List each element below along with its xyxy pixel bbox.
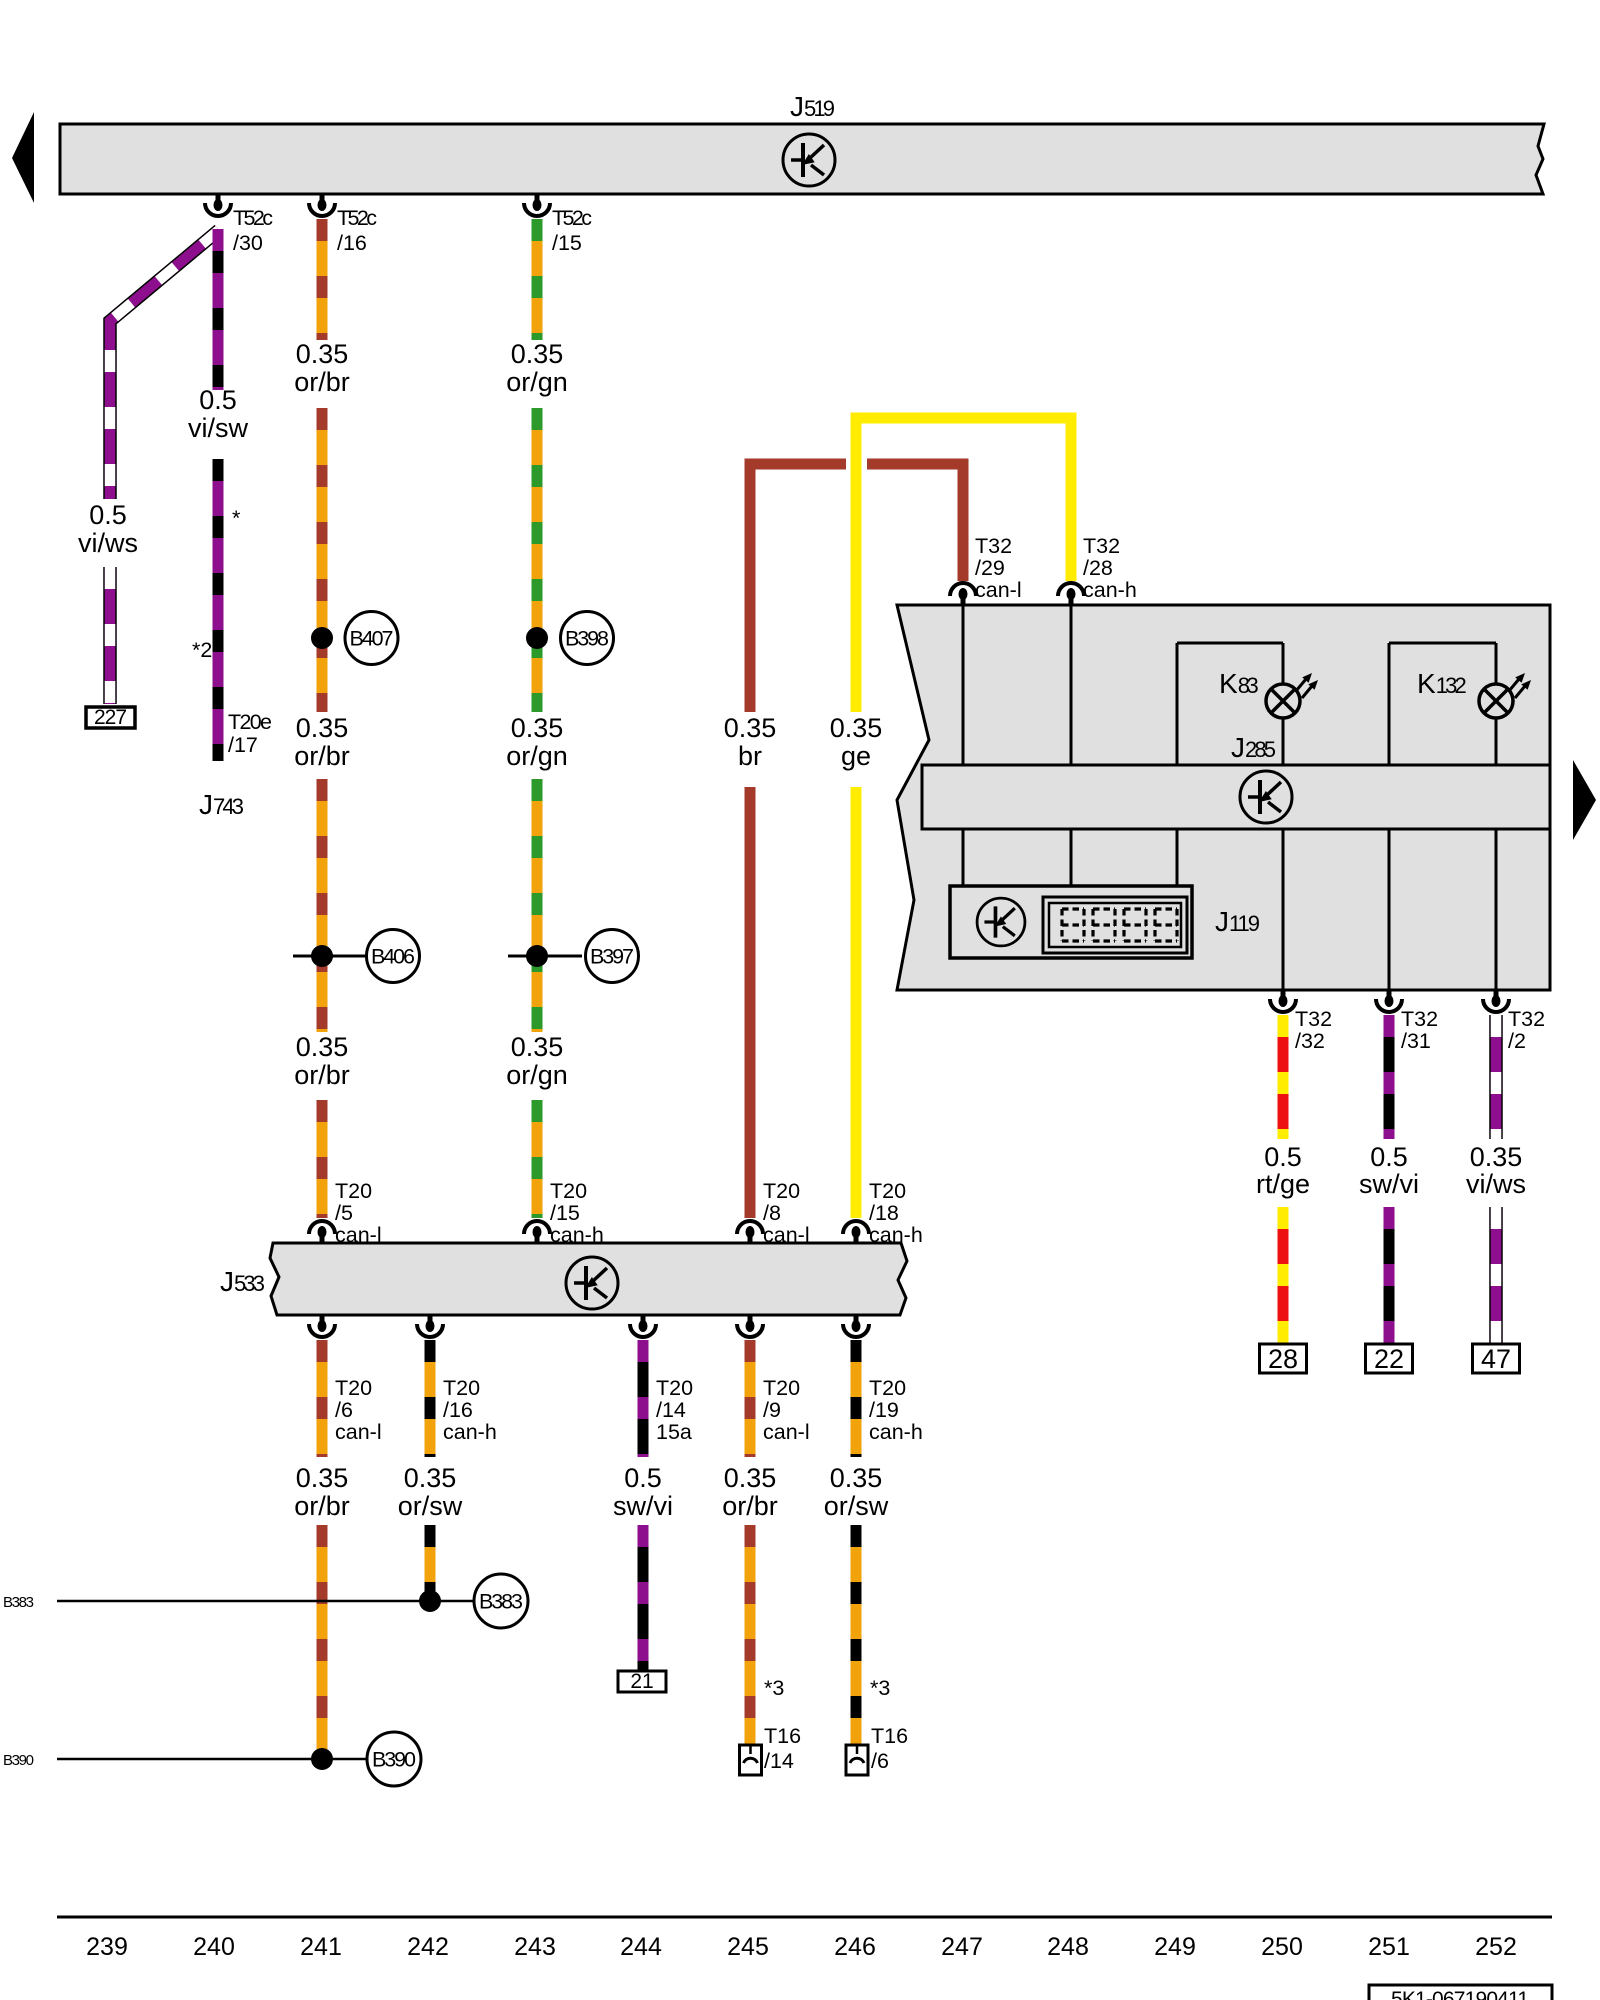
svg-text:can-l: can-l xyxy=(975,578,1022,602)
bottom scale line xyxy=(57,1916,1552,1919)
svg-text:T20: T20 xyxy=(335,1179,372,1203)
wire inside box from T32/29 (col 247) xyxy=(962,605,965,886)
continuation box 28 xyxy=(1260,1344,1307,1374)
connector T16/14 symbol xyxy=(740,1745,762,1775)
connector T20/15 on J533 top xyxy=(524,1221,550,1243)
instrument cluster control unit box (J285 area) xyxy=(897,605,1550,990)
svg-text:251: 251 xyxy=(1368,1933,1410,1961)
svg-text:0.35: 0.35 xyxy=(296,713,349,743)
label 0.5 rt/ge (col 250) xyxy=(1256,1142,1310,1199)
svg-text:T32: T32 xyxy=(1295,1007,1332,1031)
label T20 /16 can-h xyxy=(443,1376,497,1444)
label T16 /6 xyxy=(871,1724,908,1773)
connector T32/32 on box bottom xyxy=(1270,990,1296,1012)
wire vi/ws seg 2 (col 252) xyxy=(1489,1207,1503,1344)
svg-text:can-h: can-h xyxy=(869,1420,923,1444)
svg-text:T20: T20 xyxy=(550,1179,587,1203)
ground box 21 xyxy=(618,1670,666,1693)
wire sw/vi seg E below J533 (col 244) xyxy=(638,1340,649,1457)
svg-text:/15: /15 xyxy=(550,1201,580,1225)
svg-text:0.5: 0.5 xyxy=(199,385,237,415)
J119 7-segment digit 4 xyxy=(1155,909,1177,941)
J119 7-segment digit 2 xyxy=(1093,909,1115,941)
svg-text:T32: T32 xyxy=(1401,1007,1438,1031)
svg-text:/2: /2 xyxy=(1508,1029,1526,1053)
wire K132 loop left leg to T32/31 xyxy=(1388,643,1391,990)
junction B407 xyxy=(311,612,398,665)
svg-text:0.35: 0.35 xyxy=(724,713,777,743)
junction B383 xyxy=(419,1574,528,1628)
wire vi/sw upper segment (col 240) xyxy=(213,229,224,390)
svg-text:0.35: 0.35 xyxy=(724,1463,777,1493)
connector T32/29 on box top xyxy=(950,583,976,605)
svg-text:can-l: can-l xyxy=(763,1420,810,1444)
svg-text:239: 239 xyxy=(86,1933,128,1961)
connector T20/9 on J533 bottom xyxy=(737,1315,763,1337)
svg-text:B407: B407 xyxy=(350,627,394,651)
label 0.35 or/br row1 (col 241) xyxy=(294,339,350,397)
label 0.5 sw/vi row4 (col 244) xyxy=(613,1463,673,1521)
svg-text:sw/vi: sw/vi xyxy=(613,1491,673,1521)
wire or/br seg D (col 241) xyxy=(317,1100,328,1218)
svg-text:250: 250 xyxy=(1261,1933,1303,1961)
J119 K symbol xyxy=(977,898,1025,946)
svg-text:*2: *2 xyxy=(192,638,212,662)
svg-text:T20: T20 xyxy=(763,1376,800,1400)
svg-text:vi/sw: vi/sw xyxy=(188,413,249,443)
svg-text:/6: /6 xyxy=(335,1398,353,1422)
svg-text:0.35: 0.35 xyxy=(296,1032,349,1062)
svg-text:T16: T16 xyxy=(764,1724,801,1748)
label 0.35 or/sw row4 (col 246) xyxy=(824,1463,889,1521)
svg-text:5K1-067190411: 5K1-067190411 xyxy=(1391,1988,1529,2000)
connector T52c/15 on J519 xyxy=(524,194,550,216)
connector T20/14 on J533 bottom xyxy=(630,1315,656,1337)
svg-text:J285: J285 xyxy=(1231,732,1276,763)
label 0.5 vi/sw (col 240) xyxy=(188,385,249,443)
label 0.35 or/br row4 (col 241) xyxy=(294,1463,350,1521)
wire or/gn seg C (col 243) xyxy=(532,779,543,1032)
svg-text:T52c: T52c xyxy=(552,206,592,230)
wire or/br seg B (col 241) xyxy=(317,408,328,712)
wire sw/vi seg 1 (col 251) xyxy=(1384,1015,1395,1139)
J285 K symbol xyxy=(1240,771,1292,823)
svg-text:B390: B390 xyxy=(3,1752,34,1769)
node B390 wire line xyxy=(57,1758,367,1761)
label 0.35 or/gn row1 (col 243) xyxy=(506,339,568,397)
svg-text:/29: /29 xyxy=(975,556,1005,580)
wire K132 lamp leg upper xyxy=(1495,643,1498,684)
label T20 /5 can-l xyxy=(335,1179,382,1247)
label T20 /18 can-h xyxy=(869,1179,923,1247)
wire vi/ws seg 1 (col 252) xyxy=(1489,1015,1503,1139)
inner bus bar J285 xyxy=(922,765,1550,829)
svg-text:252: 252 xyxy=(1475,1933,1517,1961)
svg-text:T16: T16 xyxy=(871,1724,908,1748)
svg-text:K83: K83 xyxy=(1219,668,1259,699)
J119 display frame xyxy=(1043,897,1187,953)
label T20e /17 xyxy=(228,710,272,757)
svg-text:can-h: can-h xyxy=(550,1223,604,1247)
label 0.35 or/br row4 (col 245) xyxy=(722,1463,778,1521)
svg-text:can-l: can-l xyxy=(335,1420,382,1444)
svg-text:0.5: 0.5 xyxy=(1264,1142,1302,1172)
svg-text:0.5: 0.5 xyxy=(624,1463,662,1493)
label T20 /14 15a xyxy=(656,1376,693,1444)
svg-text:0.35: 0.35 xyxy=(296,339,349,369)
svg-text:vi/ws: vi/ws xyxy=(78,528,138,558)
svg-text:T20: T20 xyxy=(443,1376,480,1400)
svg-text:K132: K132 xyxy=(1417,668,1467,699)
svg-text:can-l: can-l xyxy=(763,1223,810,1247)
svg-text:22: 22 xyxy=(1374,1344,1404,1374)
svg-text:T32: T32 xyxy=(1083,534,1120,558)
wire K132 loop top xyxy=(1389,642,1496,645)
svg-text:J743: J743 xyxy=(199,789,244,820)
svg-text:0.35: 0.35 xyxy=(830,713,883,743)
svg-text:or/br: or/br xyxy=(722,1491,778,1521)
wire vi/ws lower segment (col 239) xyxy=(103,567,117,704)
junction B390 xyxy=(311,1732,421,1786)
svg-text:B398: B398 xyxy=(565,627,609,651)
control unit J519 bus bar xyxy=(60,124,1544,194)
svg-text:or/gn: or/gn xyxy=(506,1060,568,1090)
lamp K83 xyxy=(1266,673,1318,718)
svg-text:240: 240 xyxy=(193,1933,235,1961)
wire or/br seg F (col 245) xyxy=(745,1525,756,1745)
svg-text:br: br xyxy=(738,741,762,771)
svg-text:*: * xyxy=(232,506,241,530)
svg-text:/8: /8 xyxy=(763,1201,781,1225)
svg-text:can-l: can-l xyxy=(335,1223,382,1247)
ground box 227 xyxy=(86,706,135,729)
continuation box 22 xyxy=(1366,1344,1413,1374)
svg-text:or/br: or/br xyxy=(294,1060,350,1090)
wire or/br seg E below J533 (col 241) xyxy=(317,1340,328,1457)
svg-text:can-h: can-h xyxy=(1083,578,1137,602)
wire K132 lamp leg lower to T32/2 xyxy=(1495,718,1498,990)
svg-text:*3: *3 xyxy=(870,1676,890,1700)
connector T20/18 on J533 top xyxy=(843,1221,869,1243)
svg-text:B383: B383 xyxy=(479,1590,523,1614)
svg-text:/30: /30 xyxy=(233,231,263,255)
label T52c /30 xyxy=(233,206,273,255)
svg-text:/9: /9 xyxy=(763,1398,781,1422)
svg-text:245: 245 xyxy=(727,1933,769,1961)
wire or/br seg C (col 241) xyxy=(317,779,328,1032)
display control unit J119 box xyxy=(950,886,1192,958)
svg-text:sw/vi: sw/vi xyxy=(1359,1169,1419,1199)
wire K83 lamp leg lower to T32/32 xyxy=(1282,718,1285,990)
wire or/sw seg F (col 242) xyxy=(425,1525,436,1601)
svg-text:/19: /19 xyxy=(869,1398,899,1422)
svg-text:T20: T20 xyxy=(869,1376,906,1400)
junction B406 with tick xyxy=(293,930,420,983)
svg-text:or/br: or/br xyxy=(294,741,350,771)
svg-text:28: 28 xyxy=(1268,1344,1298,1374)
svg-text:0.5: 0.5 xyxy=(89,500,127,530)
label 0.35 or/br row2 (col 241) xyxy=(294,713,350,771)
label T32 /28 can-h xyxy=(1083,534,1137,602)
svg-text:15a: 15a xyxy=(656,1420,692,1444)
svg-text:248: 248 xyxy=(1047,1933,1089,1961)
node B383 wire line xyxy=(57,1600,474,1603)
connector T52c/16 on J519 xyxy=(309,194,335,216)
svg-text:/14: /14 xyxy=(656,1398,686,1422)
gateway J533 bar xyxy=(270,1243,907,1315)
wire br lower segment (col 245) xyxy=(745,787,756,1218)
wire or/sw seg E below J533 (col 242) xyxy=(425,1340,436,1457)
label T20 /8 can-l xyxy=(763,1179,810,1247)
svg-text:T32: T32 xyxy=(1508,1007,1545,1031)
connector T16/6 symbol xyxy=(846,1745,868,1775)
label T20 /9 can-l xyxy=(763,1376,810,1444)
wire or/gn seg B (col 243) xyxy=(532,408,543,712)
svg-text:T52c: T52c xyxy=(337,206,377,230)
connector T20/8 on J533 top xyxy=(737,1221,763,1243)
svg-text:227: 227 xyxy=(94,706,127,729)
svg-text:21: 21 xyxy=(630,1670,653,1693)
wire or/sw seg F (col 246) xyxy=(851,1525,862,1745)
svg-text:/16: /16 xyxy=(443,1398,473,1422)
connector T20/5 on J533 top xyxy=(309,1221,335,1243)
wire or/br seg F (col 241) xyxy=(317,1525,328,1759)
svg-text:242: 242 xyxy=(407,1933,449,1961)
junction B397 with tick xyxy=(508,930,639,983)
label 0.35 or/gn row2 (col 243) xyxy=(506,713,568,771)
svg-text:can-h: can-h xyxy=(869,1223,923,1247)
svg-text:249: 249 xyxy=(1154,1933,1196,1961)
svg-text:/6: /6 xyxy=(871,1749,889,1773)
connector T52c/30 on J519 xyxy=(205,194,231,216)
label T20 /15 can-h xyxy=(550,1179,604,1247)
svg-text:*3: *3 xyxy=(764,1676,784,1700)
label 0.5 sw/vi (col 251) xyxy=(1359,1142,1419,1199)
svg-text:T20: T20 xyxy=(869,1179,906,1203)
svg-text:B390: B390 xyxy=(372,1748,416,1772)
wire vi/sw lower segment (col 240) xyxy=(213,459,224,761)
label 0.35 br (col 245) xyxy=(724,713,777,771)
svg-text:B406: B406 xyxy=(371,945,415,969)
label T52c /15 xyxy=(552,206,592,255)
label T20 /6 can-l xyxy=(335,1376,382,1444)
svg-text:T20: T20 xyxy=(335,1376,372,1400)
svg-text:T20: T20 xyxy=(763,1179,800,1203)
svg-text:0.35: 0.35 xyxy=(296,1463,349,1493)
label T32 /29 can-l xyxy=(975,534,1022,602)
label 0.35 vi/ws (col 252) xyxy=(1466,1142,1526,1199)
wire ge vertical+horizontal + drop to T32/28 (col 246) xyxy=(856,418,1071,712)
svg-text:vi/ws: vi/ws xyxy=(1466,1169,1526,1199)
svg-text:0.35: 0.35 xyxy=(511,339,564,369)
svg-text:0.35: 0.35 xyxy=(1470,1142,1523,1172)
svg-text:ge: ge xyxy=(841,741,871,771)
label T32 /31 xyxy=(1401,1007,1438,1053)
connector T20/6 on J533 bottom xyxy=(309,1315,335,1337)
lamp K132 xyxy=(1479,673,1531,718)
wire K83 loop left leg to J119 xyxy=(1176,643,1179,886)
wire or/br seg A (col 241) xyxy=(317,219,328,340)
svg-text:can-h: can-h xyxy=(443,1420,497,1444)
svg-text:/5: /5 xyxy=(335,1201,353,1225)
J533 K symbol xyxy=(566,1257,618,1309)
svg-text:/17: /17 xyxy=(228,733,258,757)
svg-text:0.35: 0.35 xyxy=(511,713,564,743)
wire rt/ge seg 1 (col 250) xyxy=(1278,1015,1289,1139)
label 0.35 or/br row3 (col 241) xyxy=(294,1032,350,1090)
svg-text:J519: J519 xyxy=(790,91,835,122)
svg-text:T52c: T52c xyxy=(233,206,273,230)
svg-text:T20: T20 xyxy=(656,1376,693,1400)
svg-text:T32: T32 xyxy=(975,534,1012,558)
svg-text:J119: J119 xyxy=(1215,906,1260,937)
wire K83 loop top xyxy=(1177,642,1283,645)
svg-text:/32: /32 xyxy=(1295,1029,1325,1053)
label T52c /16 xyxy=(337,206,377,255)
svg-text:247: 247 xyxy=(941,1933,983,1961)
svg-text:B383: B383 xyxy=(3,1594,34,1611)
J119 7-segment digit 3 xyxy=(1124,909,1146,941)
right continuation arrow xyxy=(1573,760,1596,840)
svg-text:0.35: 0.35 xyxy=(404,1463,457,1493)
label T16 /14 xyxy=(764,1724,801,1773)
svg-text:T20e: T20e xyxy=(228,710,272,734)
label T20 /19 can-h xyxy=(869,1376,923,1444)
svg-text:/16: /16 xyxy=(337,231,367,255)
svg-text:or/gn: or/gn xyxy=(506,367,568,397)
svg-text:0.35: 0.35 xyxy=(511,1032,564,1062)
scale numbers 239-252 xyxy=(86,1933,1517,1961)
svg-text:243: 243 xyxy=(514,1933,556,1961)
wire br horizontal right part + drop to T32/29 xyxy=(867,464,963,581)
svg-text:241: 241 xyxy=(300,1933,342,1961)
svg-text:or/gn: or/gn xyxy=(506,741,568,771)
wire or/br seg E below J533 (col 245) xyxy=(745,1340,756,1457)
wire K83 lamp leg upper xyxy=(1282,643,1285,684)
svg-text:/18: /18 xyxy=(869,1201,899,1225)
wire sw/vi seg F (col 244) xyxy=(638,1525,649,1671)
connector T32/31 on box bottom xyxy=(1376,990,1402,1012)
connector T32/2 on box bottom xyxy=(1483,990,1509,1012)
wire or/gn seg D (col 243) xyxy=(532,1100,543,1218)
J119 7-segment digit 1 xyxy=(1062,909,1084,941)
connector T32/28 on box top xyxy=(1058,583,1084,605)
svg-text:rt/ge: rt/ge xyxy=(1256,1169,1310,1199)
wire vi/ws diagonal+vertical (col 239) xyxy=(110,230,219,499)
svg-text:47: 47 xyxy=(1481,1344,1511,1374)
label 0.35 or/gn row3 (col 243) xyxy=(506,1032,568,1090)
svg-text:or/br: or/br xyxy=(294,1491,350,1521)
svg-text:246: 246 xyxy=(834,1933,876,1961)
svg-text:or/sw: or/sw xyxy=(398,1491,463,1521)
svg-text:B397: B397 xyxy=(590,945,634,969)
wire br vertical+horizontal upper left part (col 245) xyxy=(750,464,846,712)
svg-text:244: 244 xyxy=(620,1933,662,1961)
svg-text:0.5: 0.5 xyxy=(1370,1142,1408,1172)
label 0.35 ge (col 246) xyxy=(830,713,883,771)
label 0.5 vi/ws (col 239) xyxy=(78,500,138,558)
label T32 /2 xyxy=(1508,1007,1545,1053)
svg-text:or/br: or/br xyxy=(294,367,350,397)
connector T20/16 on J533 bottom xyxy=(417,1315,443,1337)
wire rt/ge seg 2 (col 250) xyxy=(1278,1207,1289,1344)
svg-text:/15: /15 xyxy=(552,231,582,255)
J519 K symbol xyxy=(783,134,835,186)
wire inside box from T32/28 (col 248) xyxy=(1070,605,1073,886)
left continuation arrow xyxy=(12,112,34,203)
junction B398 xyxy=(526,612,614,665)
wire or/gn seg A (col 243) xyxy=(532,219,543,340)
wire or/sw seg E below J533 (col 246) xyxy=(851,1340,862,1457)
svg-text:0.35: 0.35 xyxy=(830,1463,883,1493)
wire sw/vi seg 2 (col 251) xyxy=(1384,1207,1395,1344)
drawing number box 5K1-067190411 xyxy=(1369,1985,1552,2000)
svg-text:/14: /14 xyxy=(764,1749,794,1773)
connector T20/19 on J533 bottom xyxy=(843,1315,869,1337)
label T32 /32 xyxy=(1295,1007,1332,1053)
continuation box 47 xyxy=(1473,1344,1520,1374)
svg-text:J533: J533 xyxy=(220,1266,265,1297)
svg-text:/31: /31 xyxy=(1401,1029,1431,1053)
label 0.35 or/sw row4 (col 242) xyxy=(398,1463,463,1521)
wire ge lower segment (col 246) xyxy=(851,787,862,1218)
svg-text:or/sw: or/sw xyxy=(824,1491,889,1521)
svg-text:/28: /28 xyxy=(1083,556,1113,580)
